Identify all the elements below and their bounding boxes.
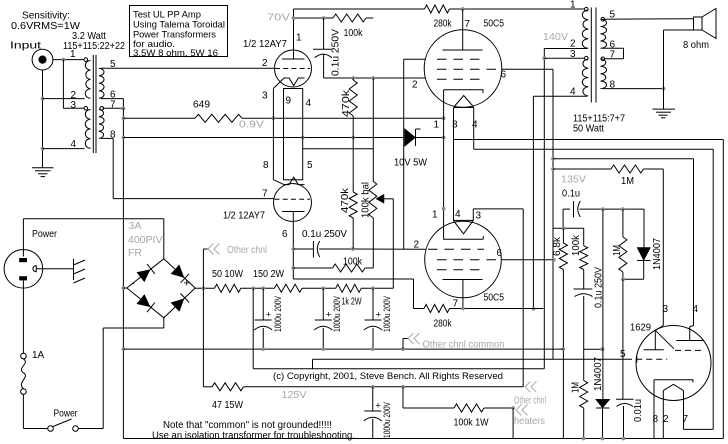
resistor 1M (bottom right) (571, 381, 588, 439)
svg-text:649: 649 (193, 100, 210, 111)
svg-text:2: 2 (412, 80, 418, 91)
resistor 280k (lower) (414, 305, 463, 330)
tube U1a 1/2 12AY7 first triode (243, 9, 312, 102)
svg-text:1M: 1M (612, 245, 623, 256)
wire: V2 plate lead and plate node y=308.5 (461, 280, 543, 311)
transformer T2 output 115+115:7+7 (570, 0, 625, 135)
input jack J1 (32, 49, 53, 70)
wire: 50C5 cathode line down to lower 50C5 (442, 90, 446, 240)
power plug P1 (4, 249, 43, 288)
wire: switch to bridge AC2 (78, 318, 164, 429)
resistor 1M (horizontal, 135V line) (553, 165, 663, 324)
wire: other chnl common tap (403, 339, 408, 350)
svg-text:50C5: 50C5 (484, 293, 505, 304)
resistor 100k 1W (403, 387, 515, 439)
svg-text:heaters: heaters (514, 415, 545, 427)
label: Other chnl heaters (514, 381, 546, 427)
wire: speaker return drop (664, 30, 694, 109)
capacitor 0.1u 250V (right) (574, 267, 605, 381)
svg-text:2: 2 (570, 39, 576, 50)
svg-text:Other chnl: Other chnl (514, 395, 546, 407)
svg-text:47 15W: 47 15W (212, 400, 243, 411)
svg-text:9: 9 (286, 96, 292, 107)
resistor 649 on cathode rail (123, 100, 445, 123)
svg-text:50 Watt: 50 Watt (573, 124, 604, 135)
svg-text:1N4007: 1N4007 (652, 238, 663, 270)
ground: input ground symbol (32, 168, 54, 177)
svg-text:Other chnl common: Other chnl common (423, 339, 505, 351)
tube V2 50C5 lower (414, 209, 505, 310)
speaker 8 ohm (683, 9, 716, 52)
wire: fuse to switch (23, 394, 47, 428)
resistor 6.8k (552, 228, 567, 269)
wire: 6.8k drop to bottom rail (561, 270, 565, 439)
svg-text:140V: 140V (543, 31, 568, 43)
wire: other channel B+ tap (203, 249, 208, 288)
ground: chassis ground symbol (74, 259, 86, 283)
svg-text:+: + (184, 278, 190, 290)
svg-text:4: 4 (472, 120, 478, 131)
wire: jack tip to transformer pin 1 (53, 58, 88, 62)
svg-text:0.6VRMS=1W: 0.6VRMS=1W (11, 21, 81, 32)
wire: second top rail to 100k (292, 16, 333, 20)
svg-text:2: 2 (414, 240, 420, 251)
svg-text:5: 5 (307, 160, 313, 171)
svg-text:100k bal: 100k bal (361, 182, 372, 218)
svg-text:0.9V: 0.9V (239, 119, 264, 131)
capacitor 0.1u (135V node) (562, 189, 644, 229)
label: 3A 400PIV FR (128, 220, 162, 259)
wire: diode column mid (602, 209, 604, 399)
svg-text:Power: Power (54, 409, 79, 420)
capacitor 1000u 200V #1 (254, 288, 284, 349)
note box: Test UL PP Amp description (130, 6, 228, 58)
potentiometer 100k bal (361, 181, 394, 288)
svg-text:8: 8 (263, 160, 269, 171)
svg-text:Use an isolation transformer f: Use an isolation transformer for trouble… (152, 430, 355, 441)
wire: T2 pin 2 drop to B+ bus (542, 49, 587, 369)
label: Other chnl common (408, 333, 505, 351)
svg-text:+: + (326, 310, 332, 321)
heater wiring box 12AY7 pins 9/4/5 (263, 89, 313, 180)
label: input transformer ratings (63, 31, 125, 52)
diode 1N4007 (upper) (621, 209, 663, 281)
wire: U1b plate lead down (291, 212, 295, 280)
svg-text:1000u 200V: 1000u 200V (273, 296, 284, 332)
wire: T2 pin 5 to speaker (603, 18, 694, 20)
svg-text:Power: Power (32, 229, 58, 240)
wire: T2 pin 8 to speaker return (603, 87, 666, 91)
transformer T1 input 115+115:22+22 (70, 49, 116, 153)
svg-text:Using Talema Toroidal: Using Talema Toroidal (133, 19, 225, 29)
svg-text:1/2 12AY7: 1/2 12AY7 (243, 39, 287, 50)
resistor 470k (lower) (340, 138, 357, 250)
resistor 150 2W (253, 269, 302, 292)
wire: cathode line joining both 12AY7 cathodes (272, 89, 274, 180)
svg-text:70V: 70V (267, 12, 290, 24)
wire: 50C5 screen pin 6 drop (502, 69, 556, 359)
svg-text:1M: 1M (571, 382, 582, 393)
wire: T1 pin 5 to 12AY7 grid (node 2) (101, 67, 275, 69)
wire: heater pin 4 rail y=149.2 (474, 108, 714, 430)
svg-text:400PIV: 400PIV (128, 234, 162, 246)
svg-text:FR: FR (128, 247, 142, 259)
wire: input hot drop to pin 3 (63, 60, 87, 111)
svg-text:8 ohm: 8 ohm (683, 40, 709, 51)
svg-text:1M: 1M (621, 176, 634, 187)
svg-text:4: 4 (306, 98, 312, 109)
svg-text:1: 1 (434, 120, 440, 131)
svg-text:3.5W 8 ohm, 5W 16: 3.5W 8 ohm, 5W 16 (133, 48, 218, 58)
capacitor 0.1u 250V (coupling, middle) (282, 229, 353, 258)
tube V1 50C5 upper (412, 9, 507, 131)
wire: T2 pins 6-7 series jog (602, 48, 624, 59)
svg-text:Power Transformers: Power Transformers (133, 29, 216, 39)
label: Other chnl (top) (208, 244, 267, 257)
resistor 100k (middle, to bias) (293, 257, 373, 273)
wire: 1M bottom link to diode column (584, 347, 605, 351)
capacitor 1000u 200V #3 (364, 288, 393, 349)
svg-text:Other chnl: Other chnl (227, 244, 267, 256)
wire: AC neutral drop to bridge AC1 (163, 219, 165, 259)
wire: common vertical (T1 center tap down to bottom rail) (122, 108, 126, 438)
svg-text:6: 6 (501, 70, 507, 81)
svg-text:-: - (131, 278, 135, 290)
svg-text:3A: 3A (129, 220, 142, 232)
svg-text:1000u 200V: 1000u 200V (382, 296, 393, 332)
svg-text:7: 7 (262, 189, 268, 200)
note: common not grounded (152, 420, 355, 441)
resistor 1k 2W (336, 284, 362, 307)
svg-text:+: + (376, 310, 382, 321)
svg-text:100k: 100k (344, 28, 364, 39)
svg-text:100k 1W: 100k 1W (454, 418, 489, 429)
switch Power (48, 409, 79, 432)
wire: grid line of lower 50C5 y=249 (351, 247, 426, 251)
wire: 70V top rail (294, 7, 586, 11)
svg-text:470k: 470k (340, 187, 351, 213)
bridge rectifier 3A 400PIV FR (127, 259, 195, 318)
resistor 100k (vertical right) (571, 228, 588, 269)
wire: AC neutral from plug top to bridge (23, 219, 163, 250)
wire: plug hot down to fuse (22, 288, 24, 353)
wire: 50C5 grid1 entry and drop to lower grid line (404, 59, 426, 249)
svg-text:3: 3 (476, 211, 482, 222)
resistor 50 10W (212, 269, 243, 292)
wire: bridge minus to common (123, 287, 126, 289)
capacitor 0.01u (616, 399, 644, 439)
svg-text:1/2 12AY7: 1/2 12AY7 (223, 211, 265, 222)
svg-text:4: 4 (455, 209, 461, 220)
ground: speaker ground (653, 109, 676, 118)
diode 1N4007 (lower) (593, 357, 610, 439)
svg-text:+: + (266, 310, 272, 321)
wire: 6.8k/100k top link y=228.3 (553, 226, 584, 230)
svg-text:150 2W: 150 2W (253, 269, 284, 280)
svg-text:0.01u: 0.01u (633, 399, 644, 422)
wire: bias feed vertical to balance pot (372, 78, 374, 181)
svg-text:1N4007: 1N4007 (593, 357, 604, 391)
wire: T2 pin 3 tie (544, 57, 584, 59)
svg-text:3: 3 (663, 304, 669, 315)
svg-text:5: 5 (620, 349, 626, 360)
wire: common rail to zener (y=137.5) (123, 136, 405, 140)
svg-text:3: 3 (452, 120, 458, 131)
svg-text:0.1u: 0.1u (562, 189, 580, 200)
svg-text:1: 1 (432, 210, 438, 221)
svg-text:1000u 200V: 1000u 200V (332, 296, 343, 332)
wire: transformer pin 4 return (43, 148, 85, 150)
svg-text:3: 3 (71, 100, 77, 111)
wire: screen bus y=359.2 (313, 359, 633, 369)
svg-text:6.8k: 6.8k (552, 236, 563, 256)
svg-text:1: 1 (570, 0, 576, 11)
wire: bottom common rail y=438.5 (123, 437, 723, 441)
fuse 1A (21, 350, 45, 394)
svg-text:+: + (375, 401, 381, 412)
svg-text:1A: 1A (32, 350, 45, 361)
wire: 1629 heater pin 7 to heater rail (684, 391, 714, 430)
svg-text:125V: 125V (282, 389, 307, 401)
wire: T2 pin 4 drop to cathode node (532, 96, 588, 310)
diode zener 10V 5W (394, 129, 446, 169)
svg-text:280k: 280k (434, 319, 453, 330)
resistor 100k (top) (333, 14, 373, 39)
wire: common rail y=349.1 (123, 347, 563, 351)
svg-text:0.1u 250V: 0.1u 250V (331, 29, 342, 76)
resistor 1M (right column) (612, 209, 627, 279)
capacitor 0.1u 250V (coupling, upper) (313, 18, 342, 78)
svg-text:2: 2 (262, 58, 268, 69)
svg-text:7: 7 (110, 100, 116, 111)
svg-text:100k: 100k (343, 257, 363, 268)
wire: V2 screen to screen bus (502, 259, 553, 261)
resistor 470k (upper) (341, 78, 357, 138)
resistor 47 15W and 125V rail (203, 383, 523, 411)
wire: heater pin 3 rail y=139.5 (454, 108, 724, 439)
svg-text:10V 5W: 10V 5W (394, 158, 428, 169)
svg-text:4: 4 (693, 304, 699, 315)
wire: screen bus rail y=158.8 (553, 159, 694, 326)
capacitor 1000u 200V #4 (364, 387, 393, 439)
tube U1b 1/2 12AY7 second triode (223, 177, 312, 221)
svg-text:2: 2 (663, 414, 669, 425)
wire: plate coupling line y=279 to 280k (293, 279, 413, 309)
svg-text:3: 3 (262, 91, 268, 102)
svg-text:4: 4 (71, 139, 77, 150)
svg-text:7: 7 (453, 299, 459, 310)
svg-text:Sensitivity:: Sensitivity: (22, 11, 70, 22)
wire: jack sleeve down to ground (41, 70, 45, 168)
wire: B+ rail y=288.5 (195, 286, 393, 290)
tube V3 1629 indicator (620, 304, 711, 425)
wire: heater line from box to bias vertical (303, 148, 374, 150)
wire: 1629 cathode pin 8 drop (653, 380, 655, 439)
svg-text:(c) Copyright, 2001, Steve Ben: (c) Copyright, 2001, Steve Bench. All Ri… (273, 371, 503, 382)
svg-text:1: 1 (296, 33, 302, 44)
svg-text:1: 1 (70, 49, 76, 60)
svg-text:6: 6 (497, 248, 503, 259)
svg-text:470k: 470k (341, 89, 352, 117)
svg-text:1629: 1629 (630, 323, 651, 334)
svg-text:50 10W: 50 10W (212, 269, 243, 280)
wire: grid bias line y=78 (324, 76, 426, 80)
wire: 0.01u column down (622, 279, 624, 399)
wire: T1 pin 8 to 12AY7 second grid (101, 138, 274, 198)
wire: 140V B+ bus y=368.8 (253, 288, 544, 369)
svg-text:100k: 100k (571, 234, 582, 256)
capacitor 1000u 200V #2 (314, 288, 343, 349)
svg-text:135V: 135V (561, 174, 586, 186)
svg-text:8: 8 (653, 414, 659, 425)
wire: transformer pin 2 return (43, 98, 85, 100)
wire: raw B+ drop to 47 ohm (202, 288, 204, 387)
svg-text:1000u 200V: 1000u 200V (382, 402, 393, 438)
svg-text:7: 7 (465, 19, 471, 30)
svg-text:0.1u 250V: 0.1u 250V (302, 229, 347, 240)
svg-text:Input: Input (10, 41, 41, 52)
wire: 1629 heater pin 2 drop (662, 391, 664, 439)
svg-text:50C5: 50C5 (484, 19, 505, 30)
label: sensitivity note (11, 11, 81, 33)
svg-text:1k 2W: 1k 2W (342, 297, 362, 308)
svg-text:280k: 280k (434, 19, 453, 30)
resistor 280k (upper) (425, 5, 453, 30)
svg-text:6: 6 (282, 229, 288, 240)
wire: V2 heater pin 3 up to 125V feed (473, 209, 523, 387)
svg-text:Test UL PP Amp: Test UL PP Amp (133, 9, 201, 19)
wire: T1 pin 6 jog to pin 7 junction (101, 99, 125, 111)
wire: plug ground pin to chassis ground (36, 268, 73, 270)
